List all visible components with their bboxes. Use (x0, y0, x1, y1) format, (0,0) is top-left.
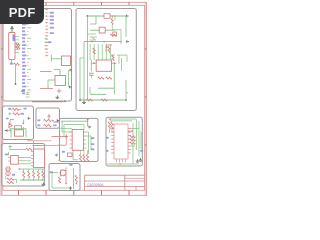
IC U4b pins (8, 158, 10, 162)
resistor R10 (12, 108, 19, 110)
component U5 (crystal) (51, 55, 70, 66)
wire J1 top to VCC (11, 32, 13, 33)
diode D9 cross symbol (57, 89, 62, 94)
wire right of U6 (68, 70, 70, 87)
wire stubs JP2 lower pins (44, 39, 47, 50)
junction on top rail (86, 15, 88, 17)
wire y88 rail (98, 87, 114, 89)
fuse F1 on top rail (104, 14, 110, 19)
resistor bank R19 (42, 171, 44, 178)
nested wire stubs right of x87.6 (88, 34, 97, 40)
resistor bank R16 (28, 171, 30, 178)
junction bottom rail right (125, 99, 127, 101)
frame right margin band (145, 2, 147, 195)
module box B4 (LED indicator section) (36, 108, 60, 128)
pin P1b right of U6 (70, 86, 72, 89)
red net wire y145 in B6 (58, 139, 66, 145)
resistor R2 (16, 47, 20, 49)
resistor R20 (7, 178, 14, 180)
wire top rail B6 (61, 120, 88, 122)
red net wire below B1 (32, 101, 64, 103)
pin P3 right of y39 rail (127, 40, 129, 43)
wire path right of R29 (112, 30, 121, 44)
junctions on ground rail (23, 179, 44, 181)
wire top rail1 B7 (109, 119, 137, 150)
resistor bank B6 R22 (79, 155, 81, 162)
wire right part B8 (73, 168, 75, 189)
net label row3 (6, 118, 9, 120)
IC U5 right pins (128, 129, 131, 154)
wire drops below row4 (10, 127, 24, 132)
junction bottom rail B7 (119, 163, 121, 165)
wire drop from top rail (90, 16, 96, 24)
wire left drop x84 (83, 42, 85, 100)
wires from U4 right pins (86, 132, 91, 154)
resistor R3 (14, 63, 20, 65)
wire bottom B6 (73, 150, 78, 160)
net label in B5 left (5, 154, 8, 156)
wire into U4b (8, 152, 10, 156)
resistor R1 (16, 44, 20, 46)
junction on rail above bank (19, 168, 21, 170)
red net junction top of B5 (33, 145, 35, 147)
junction node A (15, 83, 17, 85)
net label B8 top (69, 164, 72, 166)
IC U4 left pins (70, 132, 72, 148)
wire bottom rail B7 (107, 163, 139, 165)
resistor R28 (75, 175, 77, 183)
wire left drop x87.6 (87, 16, 89, 100)
net label right of U4 row2 (91, 143, 95, 145)
pin P7 below junction (89, 126, 91, 129)
connector J1 right pin wires (15, 37, 19, 53)
wire into Q6 gate (50, 172, 59, 174)
component D1 (diode) (99, 27, 105, 33)
red stub at top B6 (87, 119, 89, 127)
resistor R29 below top rail (111, 16, 113, 30)
resistor R9 on bottom rail (101, 99, 107, 101)
transistor Q3 (9, 123, 12, 129)
wire stub x114.9 (114, 16, 116, 21)
red stub into U3 top (32, 145, 34, 149)
IC U4 body (72, 130, 83, 151)
junction dots top rail right (112, 15, 116, 17)
pin P5 of D4 (5, 129, 7, 132)
net label B6 left (62, 151, 65, 153)
red net spur to B5 (33, 141, 35, 144)
component D3 body (15, 126, 22, 131)
part name label J1 vertical (13, 34, 15, 41)
net label LED2 anode (37, 124, 40, 126)
ground symbol B5 bottom right (42, 183, 46, 186)
net label RST right (23, 108, 26, 110)
ground symbol B7 g1 (136, 159, 140, 162)
net label right of U4 row1 (91, 137, 95, 139)
net label near Q5 (12, 174, 15, 176)
ground symbol B7 g2 (139, 158, 143, 161)
pin P1 top right of U6 (70, 69, 72, 72)
IC U3 left pins (31, 151, 34, 166)
module box B5 (MCU section) (2, 144, 45, 187)
schematic frame outer border (1, 2, 147, 195)
wire left drop x80 (80, 58, 84, 100)
wire top rail of B2 (87, 15, 126, 17)
title block table (85, 175, 145, 190)
net label column of J1 signals (22, 24, 31, 95)
module box B1 (USB/serial section) (3, 9, 72, 102)
wire y55 segment (117, 55, 127, 71)
resistor R30 on bottom rail (87, 99, 93, 101)
wire J1 bottom (10, 60, 12, 64)
pin P9 bottom right B8 (69, 187, 72, 191)
wire from R20 R21 (6, 176, 17, 183)
junction bottom rail left (79, 99, 81, 101)
junction B8 right (76, 183, 78, 185)
wire ground rail B5 (20, 179, 44, 181)
net label DTR (10, 63, 14, 65)
resistor R12 (43, 119, 51, 121)
transistor Q5 (6, 171, 10, 176)
IC U5 left pins (111, 129, 114, 154)
wire loop around D4 (11, 129, 26, 137)
wire mid rail of B2 (90, 29, 115, 31)
frame left margin band (1, 2, 3, 195)
red stub right of U5 top (128, 130, 133, 132)
module box B6 (regulator section) (60, 118, 99, 161)
module box B8 (output FET section) (49, 164, 80, 191)
red cross junction net VIN (64, 134, 68, 138)
IC U5 body (114, 124, 128, 159)
title block document text (87, 183, 104, 187)
power tap at end of red net (64, 100, 66, 102)
resistor R5 (93, 48, 95, 54)
red net wire across B5 top (33, 144, 44, 146)
transistor Q6 (MOSFET) (60, 168, 67, 185)
wire stubs bottom of B1 (26, 92, 30, 97)
net label below U5 left (106, 150, 109, 152)
junction top left B7 (109, 118, 111, 120)
IC U3 body (34, 149, 45, 167)
resistor R4 (110, 34, 117, 36)
junction left of U2 (92, 62, 97, 64)
component D2 (zener) (113, 32, 117, 36)
wire bottom B8 (52, 173, 71, 188)
wire pin to D4 (7, 130, 11, 132)
wires resistor bank bottoms (24, 178, 43, 180)
wire inner rail B6 (64, 125, 84, 137)
IC U4 right pins (84, 132, 87, 148)
red net wire B5 to B6 (45, 144, 58, 146)
resistor R11 (13, 113, 20, 115)
wire R3 down to node (15, 65, 17, 84)
resistor R27 (58, 177, 60, 183)
svg-text:CAD3050A: CAD3050A (87, 183, 104, 187)
resistor R7 (98, 77, 104, 79)
pin stub right of R10 (19, 108, 22, 110)
pin P4 row3 (28, 117, 30, 120)
net label B8 input (50, 171, 53, 173)
net label right of U4 row3 (91, 148, 95, 150)
wire rail above resistor bank (18, 168, 44, 170)
resistor R14 (26, 148, 32, 150)
frame row and column tick marks (1, 2, 147, 195)
red bus segment net VBUS (40, 71, 52, 73)
wire left loop B6 (61, 121, 63, 132)
wire y94 rail (90, 87, 106, 94)
resistor R26 (111, 122, 113, 129)
junction dots on y39 rail (91, 41, 105, 43)
red pins below U5 (117, 160, 126, 163)
ground symbol under D9 (56, 96, 60, 99)
module box B2 (power supply section) (76, 9, 136, 111)
power symbol VCC above J1 (10, 26, 14, 31)
resistor bank R18 (37, 171, 39, 178)
wire right drop x126 lower (126, 80, 128, 100)
wire L into U6 area (54, 70, 60, 76)
junction B6 left low (59, 160, 61, 162)
red pins bottom B6 (81, 150, 88, 154)
wire top rail B5 (10, 149, 26, 151)
transistor Q4 (6, 167, 11, 171)
resistor R6 (108, 47, 110, 53)
wire rows into U4 (61, 128, 73, 132)
pin P2 top rail right end (126, 15, 128, 18)
net label right edge B7 (140, 150, 143, 152)
net label MCLR (20, 113, 24, 115)
net label LED1 anode (37, 119, 40, 121)
component U6 (ferrite) (48, 76, 66, 89)
junction Q3 base (9, 123, 11, 125)
red net wire entering B6 (52, 136, 65, 138)
resistor cluster RN1 right of U5 (130, 136, 136, 145)
junction right of U2 (112, 62, 117, 64)
wire rail at y39 in B2 (84, 41, 122, 43)
wire x114 drop (113, 63, 115, 94)
resistor R13 (43, 125, 51, 127)
wires right of U5 (131, 121, 141, 164)
ground symbol bottom of B2 (82, 101, 86, 104)
PDF badge overlay (0, 0, 44, 24)
red bus segment net SHIELD (40, 88, 53, 90)
dark pin line row1 (54, 121, 60, 123)
wires U4b to U3 (18, 158, 31, 164)
module box B3 (reset circuit section) (3, 106, 34, 140)
power stub symbol (8, 112, 11, 115)
junction top right B6 (87, 119, 89, 121)
resistor R8 (106, 77, 112, 79)
IC U4b body (11, 156, 19, 165)
red net wire between B3 and B6 (28, 140, 52, 141)
component D6 body (68, 153, 73, 157)
schematic frame inner border (3, 5, 145, 190)
resistor bank B6 R23 (83, 155, 85, 162)
pin header JP2 pin column (45, 9, 48, 57)
net label JP2 lower (48, 41, 52, 43)
wires from R25 R26 down (109, 129, 112, 133)
resistor bank B6 R24 (86, 155, 88, 162)
component D5 vertical (47, 114, 50, 119)
net labels for JP2 (50, 12, 54, 34)
junction Q3 collector (22, 123, 24, 125)
module box B7 (driver IC section) (106, 117, 142, 166)
net label LED2 net (53, 125, 56, 127)
junction after R12 (52, 120, 54, 122)
net label left of U5 (106, 137, 109, 139)
net label GND1 (21, 90, 25, 92)
connector J1 (9, 33, 15, 60)
component D4 body (15, 130, 24, 136)
wire bottom rail of B2 (80, 99, 126, 101)
wire pair row3 (10, 120, 24, 125)
IC U2 body (96, 60, 111, 71)
pin P6 row1 (57, 119, 59, 122)
component Q2 marks (111, 55, 115, 61)
net label RST (8, 108, 11, 110)
wire top rail2 B7 (110, 120, 132, 122)
vertical wires center B2 (90, 44, 110, 60)
wires resistor bank tops (24, 169, 43, 171)
component Q1 marks (106, 45, 112, 52)
resistor bank R17 (33, 171, 35, 178)
wire x91 drop (90, 60, 92, 71)
wire right drop x126 (125, 16, 127, 37)
pin P8 left edge B6 (55, 154, 57, 157)
resistor bank R15 (23, 171, 25, 178)
resistor R25 (108, 122, 110, 129)
power flag symbol in B5 (8, 145, 11, 149)
resistor R21 (7, 182, 14, 184)
capacitor C1 (89, 73, 94, 78)
